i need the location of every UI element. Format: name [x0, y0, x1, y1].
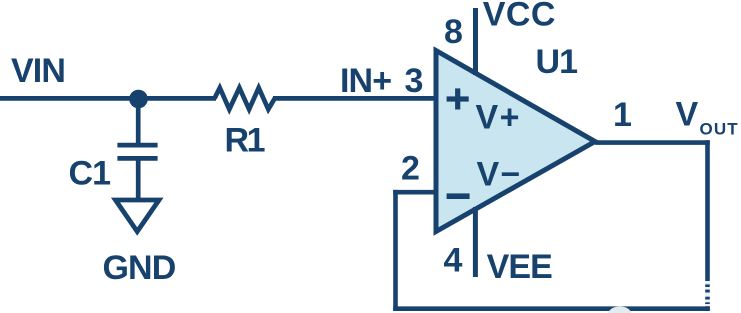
op-amp U1 triangle — [436, 51, 595, 232]
svg-text:R1: R1 — [225, 122, 265, 160]
watermark fragments on right wire (white) — [704, 281, 711, 306]
svg-text:V: V — [676, 95, 699, 133]
node junction dot — [129, 90, 148, 109]
resistor R1 — [215, 88, 275, 110]
op-amp non-inverting input marker + — [447, 88, 469, 109]
pin 8 wire (VCC) — [473, 8, 478, 75]
wire VIN input to resistor R1 — [0, 96, 216, 101]
svg-text:3: 3 — [405, 62, 424, 100]
svg-text:V−: V− — [477, 156, 522, 194]
wire feedback bottom horizontal segment — [393, 306, 710, 311]
svg-text:U1: U1 — [536, 43, 578, 81]
svg-text:2: 2 — [401, 149, 420, 187]
op-amp inverting input marker - — [447, 193, 470, 199]
wire capacitor to ground — [136, 158, 141, 201]
svg-text:V+: V+ — [476, 99, 522, 137]
svg-text:1: 1 — [613, 96, 632, 134]
watermark circle fragment on bottom wire — [608, 307, 631, 313]
pin 4 wire (VEE) — [473, 207, 478, 277]
svg-text:VCC: VCC — [483, 0, 556, 34]
svg-text:VIN: VIN — [11, 52, 65, 90]
wire feedback left vertical segment — [393, 190, 398, 311]
svg-text:GND: GND — [103, 249, 176, 287]
wire op-amp pin 1 output to right corner — [595, 140, 710, 145]
wire feedback right vertical segment — [705, 140, 710, 311]
ground symbol — [116, 200, 160, 232]
capacitor C1 bottom plate — [117, 156, 157, 161]
capacitor C1 top plate — [117, 143, 157, 148]
svg-text:IN+: IN+ — [340, 62, 391, 100]
wire resistor R1 to op-amp pin 3 — [273, 96, 438, 101]
svg-text:C1: C1 — [69, 154, 111, 192]
svg-text:4: 4 — [444, 241, 463, 279]
wire junction to capacitor top plate — [136, 99, 141, 146]
svg-text:OUT: OUT — [700, 120, 739, 139]
svg-text:VEE: VEE — [487, 248, 553, 286]
svg-text:8: 8 — [444, 13, 463, 51]
wire feedback to op-amp pin 2 — [393, 190, 438, 195]
